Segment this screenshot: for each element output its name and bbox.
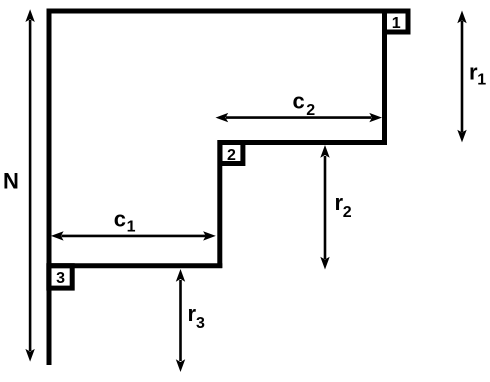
svg-text:1: 1 (392, 15, 401, 32)
svg-text:c: c (293, 88, 305, 113)
svg-text:3: 3 (196, 315, 205, 332)
svg-text:c: c (114, 207, 126, 232)
svg-text:2: 2 (227, 147, 236, 164)
svg-text:1: 1 (477, 72, 486, 89)
svg-text:1: 1 (127, 218, 136, 235)
svg-text:2: 2 (306, 102, 315, 119)
svg-text:2: 2 (343, 204, 352, 221)
svg-text:N: N (3, 169, 19, 194)
svg-text:3: 3 (56, 270, 65, 287)
